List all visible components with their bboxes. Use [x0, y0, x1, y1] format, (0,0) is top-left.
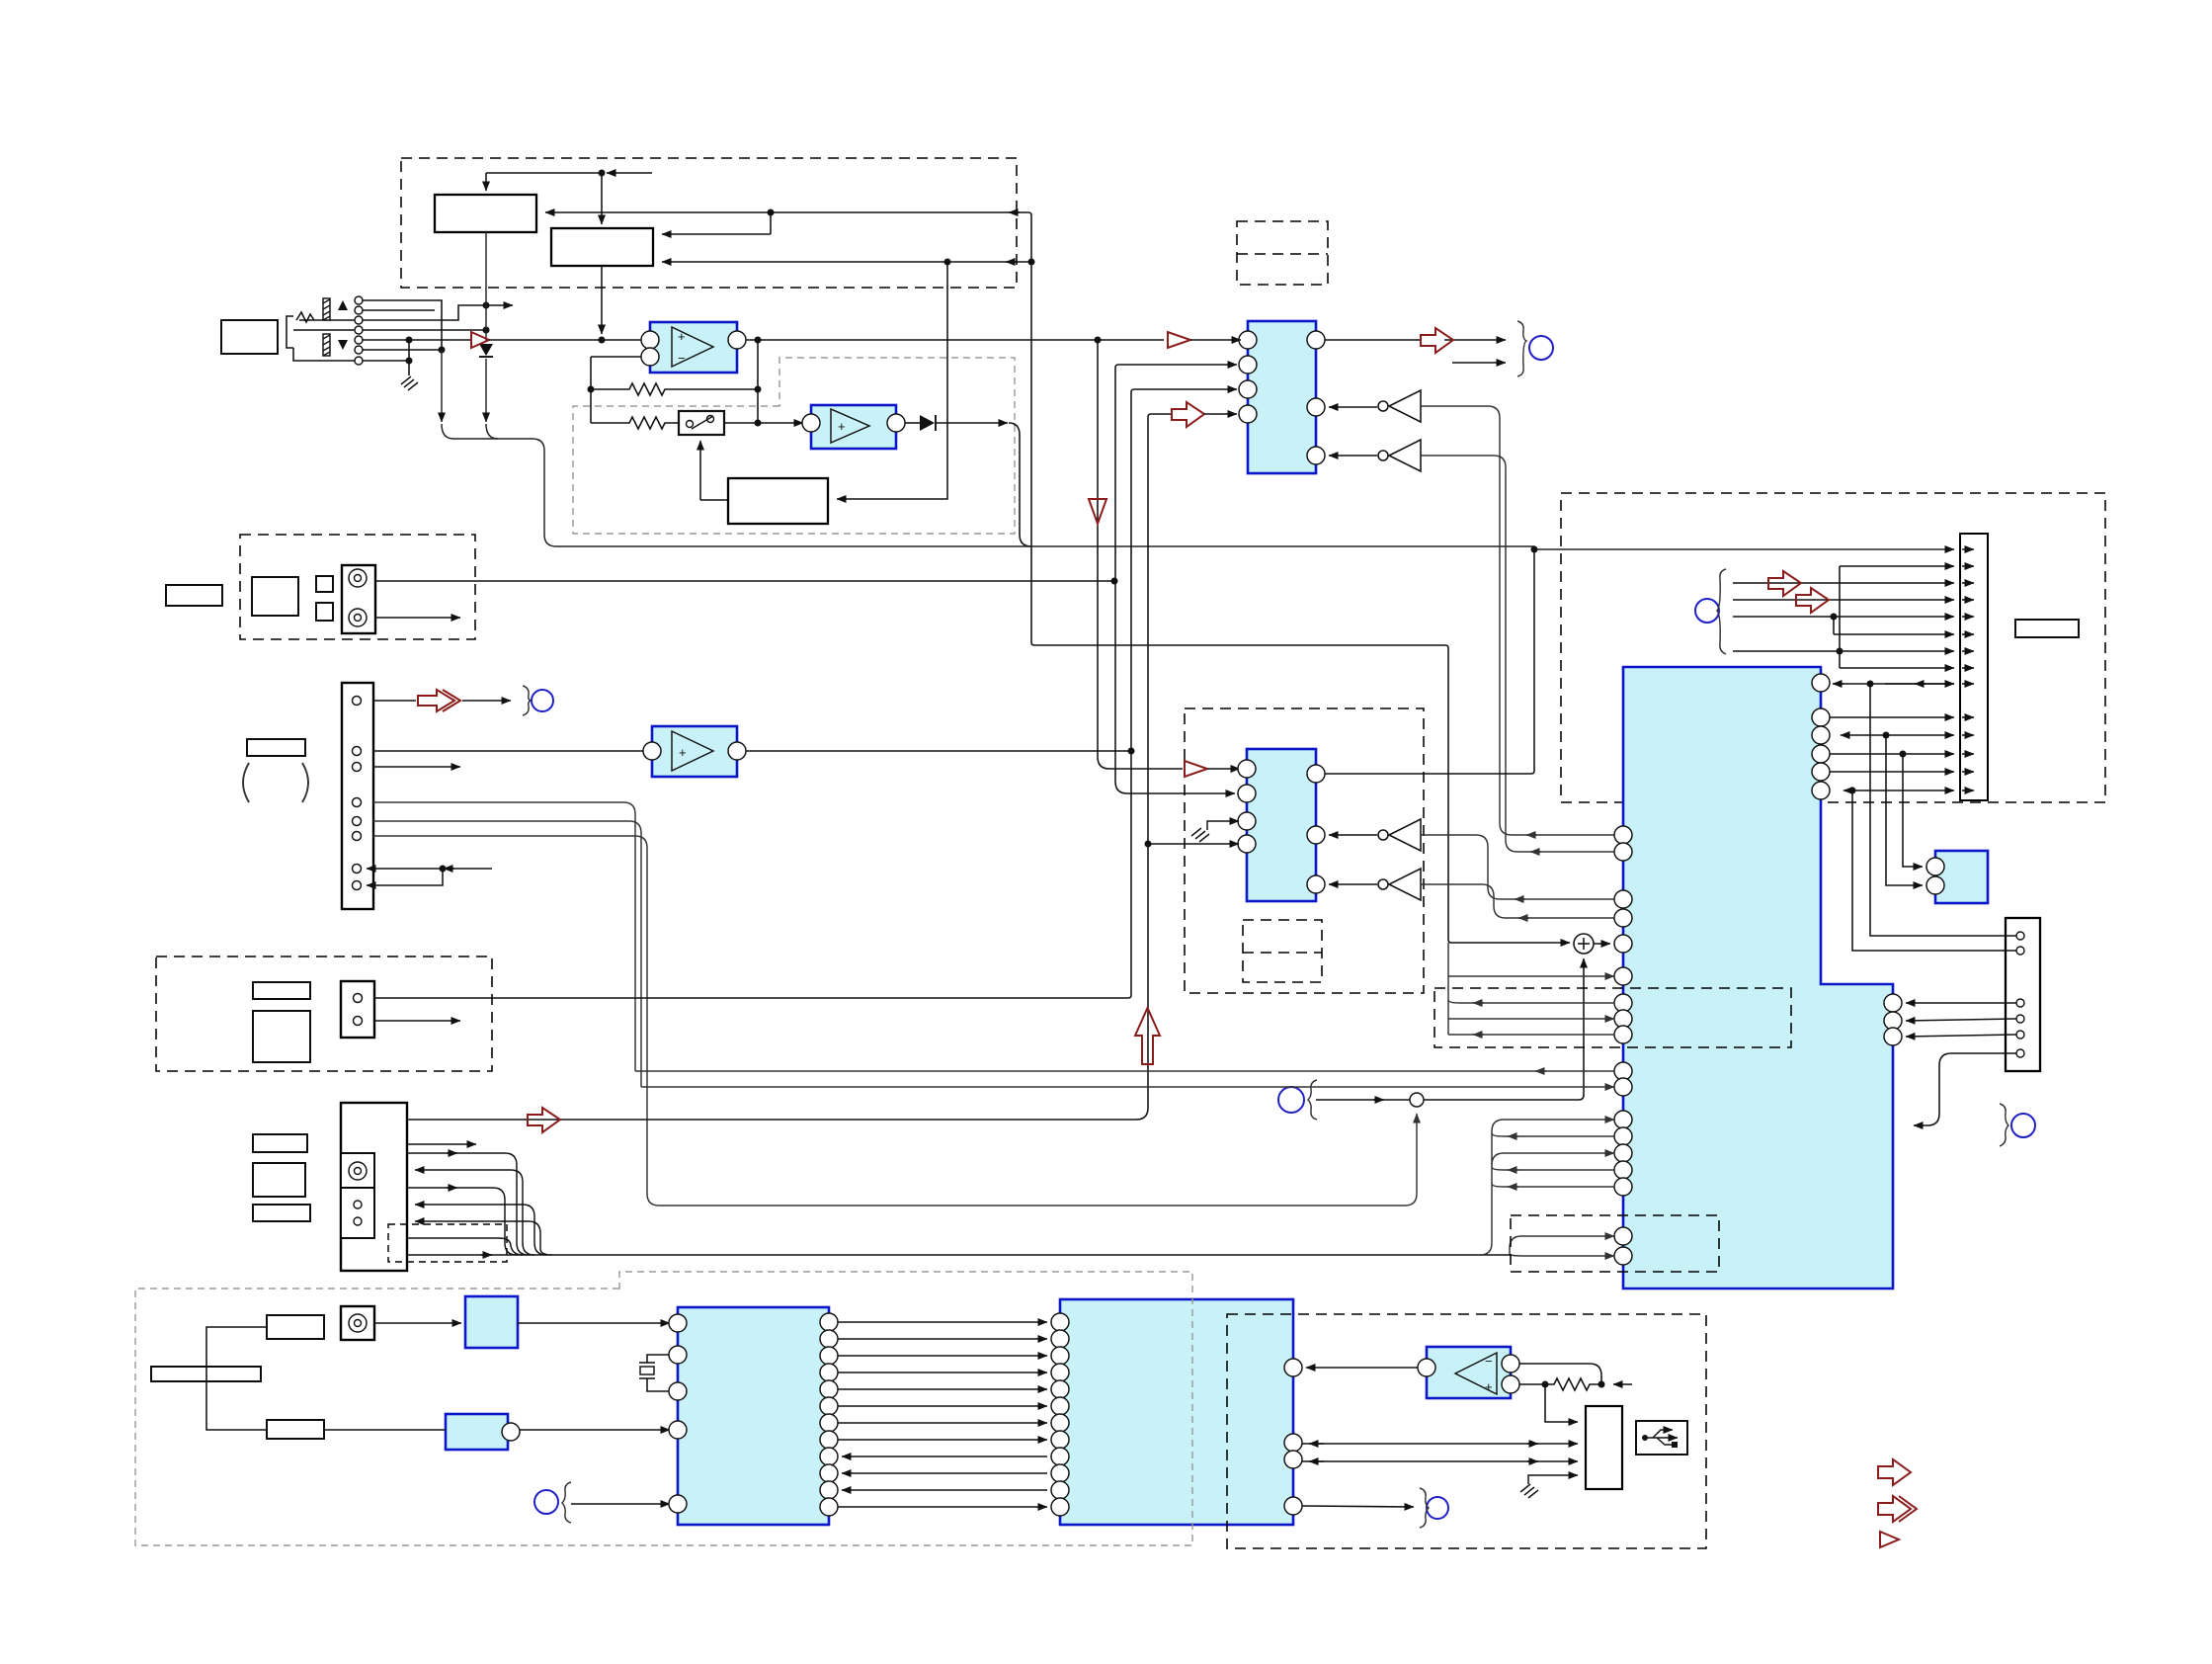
junction: y215 branch	[768, 209, 775, 216]
wire: long feedback loop vertical 1044	[1028, 212, 1570, 943]
wire: diode out to bus	[936, 423, 1031, 546]
main IC right pins	[1812, 674, 1902, 1045]
block: lower-left box 2	[253, 1011, 310, 1062]
wire: conn pin2 to opamp3	[373, 750, 643, 752]
connector circle: remote jack	[523, 686, 553, 715]
dashed block: grey bottom digital section	[135, 1272, 1192, 1545]
junction: fb nodes	[755, 386, 762, 393]
block: osc cyan small	[446, 1414, 520, 1450]
svg-text:+: +	[838, 419, 846, 434]
legend: small triangle	[1880, 1532, 1899, 1547]
wire: panel bus lines	[407, 1153, 552, 1255]
svg-text:+: +	[679, 745, 687, 760]
mid1 pins	[1239, 331, 1325, 464]
wire: strip line 556 inner	[1962, 548, 1974, 550]
wire: box2 down to audio line	[601, 266, 603, 334]
connector circle: mic in blue	[534, 1482, 571, 1523]
wire: strip line 676	[1840, 667, 1974, 669]
wire: strip group2 763	[1830, 753, 1974, 755]
connector circle: line out blue	[1420, 1488, 1448, 1528]
dashed block: right pins group B2	[1434, 988, 1791, 1047]
wire: mid1 pin4 fat arrow	[1172, 402, 1237, 427]
crystal X1	[639, 1355, 678, 1391]
block: reset cyan small	[1926, 851, 1988, 903]
IC decoder right pins	[1284, 1359, 1302, 1515]
dashed block: small two-cell placeholder top	[1237, 221, 1328, 285]
inverter: mid2 inv4	[1329, 869, 1421, 900]
connector: front panel block	[341, 1103, 407, 1271]
wire: lower conn pin1 long	[374, 389, 1134, 998]
ground: usb shield	[1520, 1475, 1578, 1498]
wire: box1 top loop	[486, 173, 652, 224]
wire: panel stub	[407, 1143, 476, 1145]
wire: strip line 642	[1834, 633, 1974, 635]
signal triangle: mid1 input	[1168, 332, 1190, 348]
wire: inv2 from main IC	[1421, 456, 1614, 852]
op-amp U3	[643, 726, 746, 777]
dashed block: top-right key section	[1561, 493, 2105, 802]
signal triangle: input buffer	[471, 332, 489, 348]
wire: strip group2 800	[1843, 790, 1974, 791]
wire: opamp4 feedback	[1519, 1364, 1632, 1422]
wire: lower resistor into switch	[591, 417, 803, 429]
block: system control box 1	[435, 195, 536, 232]
ground: jack shield	[401, 376, 418, 390]
dashed block: lower-left switch section	[156, 957, 492, 1071]
dashed block: grey mute circuit section	[573, 358, 1015, 534]
wire: jack shield to ground	[408, 340, 410, 375]
signal triangle: red down on 1111	[1089, 499, 1106, 524]
block: small square B	[316, 603, 333, 621]
connector: rear RCA jack	[341, 1306, 374, 1340]
wire: strip group2 781	[1830, 771, 1974, 773]
IC: main system controller	[1623, 667, 1893, 1289]
svg-text:+: +	[1485, 1379, 1493, 1394]
wire: sum to IC pin	[1594, 943, 1610, 945]
wire: inv1 from main IC	[1421, 406, 1614, 835]
signal arrow: remote double chevron	[418, 690, 460, 711]
block: strip label rect	[2015, 620, 2079, 637]
block: servo box 3	[728, 478, 828, 524]
block: label rect above connector	[247, 739, 305, 756]
connector circle: headphone out blue	[1517, 321, 1553, 376]
label: big parentheses	[243, 763, 308, 802]
junction: sense-line crossing	[483, 302, 490, 309]
wire: bus riser pin 1251	[1510, 1236, 1614, 1255]
wire: lower rect to osc	[324, 1429, 446, 1431]
junction: box-loop top	[599, 170, 606, 177]
dashed block: mid headphone amp section	[1185, 708, 1424, 993]
block: left source box	[221, 320, 278, 354]
node: open junction circle	[1410, 1093, 1424, 1107]
wire: jack row6	[363, 349, 442, 351]
wire: strip group2 726	[1830, 716, 1974, 718]
junction: power line tap mid2	[1145, 841, 1152, 848]
op-amp U4 line-out	[1418, 1347, 1519, 1398]
wire: inv4 from main IC	[1421, 884, 1614, 918]
wire: panel power line	[407, 414, 1172, 1120]
wire: mid2 output up to bus	[1325, 549, 1534, 774]
inverter: mid2 inv3	[1329, 819, 1421, 851]
dashed block: small two-cell placeholder mid	[1243, 920, 1322, 982]
block: line-in filter cyan	[465, 1296, 518, 1348]
signal arrow: red fat up arrow	[1135, 1008, 1160, 1064]
connector circle: key common blue	[1695, 569, 1726, 654]
wire: strip group2 744	[1841, 734, 1974, 736]
signal arrow: power fat arrow	[528, 1108, 560, 1132]
wire: mid1 pin2 from vertical	[1115, 365, 1237, 793]
IC dsp right pins	[820, 1313, 838, 1516]
wire: jack row1	[363, 300, 442, 350]
block: battery long rect	[151, 1367, 261, 1381]
connector circle: mic blue left	[1278, 1080, 1317, 1120]
connector: headphone jack assembly	[287, 312, 355, 361]
wire: mic to dsp	[571, 1503, 670, 1505]
junction: jack line meets vertical	[1111, 578, 1118, 585]
wire: conn pins grey bundle	[373, 802, 1417, 1206]
wire: aux pin2	[1852, 790, 2016, 951]
connector: main board connector tall	[342, 683, 373, 909]
ground: mid2 pin3	[1191, 821, 1239, 842]
diode: mute diode on 492	[479, 344, 493, 356]
wire: jack row4	[363, 329, 486, 331]
jack hatched bar lower	[323, 334, 330, 356]
connector: aux 6pin right	[2006, 918, 2040, 1071]
wire: mid1 pin3	[1134, 388, 1237, 390]
jack contact circles	[355, 296, 363, 365]
junction: mid2 out bus	[1531, 546, 1538, 553]
jack detect triangle down	[338, 340, 348, 350]
svg-text:−: −	[1485, 1354, 1493, 1369]
jack hatched bar upper	[323, 298, 330, 320]
svg-text:+: +	[678, 329, 686, 344]
block: lower-left label rect 1	[253, 982, 310, 999]
wire: switch control from box3	[700, 441, 728, 500]
wire: main digital bus	[407, 1254, 1510, 1256]
wire: conn pin1 to remote out	[373, 700, 511, 702]
sum node: mixer plus	[1574, 934, 1594, 954]
junction: audio split to hp	[1095, 337, 1102, 344]
wire: strip line 573	[1840, 566, 1974, 668]
block: small square A	[316, 576, 333, 592]
wire: inv3 from main IC	[1421, 835, 1614, 899]
wire: bus risers pins 1133-1201	[1480, 1120, 1614, 1255]
legend: fat arrow double	[1878, 1496, 1917, 1522]
svg-text:−: −	[678, 351, 686, 366]
symbol: usb logo box	[1636, 1421, 1687, 1455]
wire: into mid2 pin1	[1207, 768, 1240, 770]
jack detect triangle up	[338, 300, 348, 310]
wire: osc to dsp	[520, 1429, 670, 1431]
mid2 pins	[1238, 760, 1325, 893]
wire: reset feeds	[1886, 735, 1923, 885]
connector: key matrix strip	[1960, 534, 1988, 800]
block: small rect lower	[267, 1420, 324, 1439]
IC: headphone driver mid2	[1247, 749, 1316, 901]
wire: strip line 659	[1733, 650, 1974, 652]
IC: headphone driver mid1	[1248, 321, 1316, 473]
IC: DSP main block bottom-left	[678, 1307, 829, 1525]
IC: decoder block bottom-right	[1060, 1299, 1293, 1525]
wire: lower conn pin2 stub	[374, 1020, 460, 1022]
wire: opamp1 output main audio	[746, 339, 1164, 341]
IC decoder left pins	[1051, 1313, 1069, 1516]
IC dsp left pins	[669, 1314, 687, 1513]
wire: strip line 692 from IC	[1833, 683, 1974, 685]
wire: jack row2	[363, 309, 435, 311]
wire: mid2 pin4	[1148, 843, 1239, 845]
op-amp U1	[641, 322, 746, 373]
wire: dsp-decoder data bus	[838, 1322, 1047, 1507]
wire: grey bundle A pins 988-1047	[1448, 943, 1614, 1035]
block: system control box 2	[551, 228, 653, 266]
wire: box1 feedback line y215	[545, 212, 1028, 234]
diode: detector diode	[920, 415, 935, 431]
wire: filter to dsp pin1	[518, 1322, 670, 1324]
connector: dual RCA jack block	[342, 565, 375, 633]
op-amp U2	[802, 405, 905, 449]
wire: jack row7	[363, 360, 409, 362]
wire: usb data lines	[1302, 1444, 1578, 1461]
wire: opamp3 output	[746, 750, 1131, 752]
block: left label rect mid	[166, 585, 222, 606]
signal triangle: mid2 input	[1185, 761, 1207, 777]
wire: rca to filter	[374, 1322, 461, 1324]
signal arrow: mid1 out fat	[1421, 328, 1453, 353]
block: front label rects	[253, 1134, 307, 1152]
wire: mid1 output to hp connector	[1325, 340, 1506, 363]
wire: audio into opamp1	[489, 339, 646, 341]
junction: pin7 branch	[440, 866, 447, 873]
wire: conn pin3 stub	[373, 766, 460, 768]
block: sensor box in dashed section	[252, 577, 298, 616]
wire: vertical to servo box3	[837, 262, 947, 499]
inverter: mid1 inv2	[1329, 440, 1421, 471]
wire: pins 1084 1100 long	[635, 1071, 1614, 1087]
junction: y265 branch	[944, 259, 951, 266]
wire: opamp2 out to diode	[905, 422, 920, 424]
wire: feedback resistor upper	[591, 340, 758, 423]
block: small rect upper	[267, 1315, 324, 1339]
dashed block: top-left control section	[401, 158, 1017, 288]
wire: jack B stub arrow	[375, 617, 460, 619]
wire: aux pin1	[1870, 684, 2016, 936]
wire: aux pin6 to blue conn	[1914, 1053, 2016, 1125]
legend: fat arrow single	[1878, 1459, 1911, 1485]
wire: main lower bus	[556, 546, 1954, 549]
connector: lower-left 2pin	[341, 981, 374, 1038]
dashed block: bottom-right usb section	[1227, 1314, 1706, 1548]
wire: into mid1 pin1	[1190, 339, 1241, 341]
wire: battery link	[206, 1327, 267, 1430]
wire: jack A long line right	[375, 580, 1114, 582]
main IC left pins	[1614, 826, 1632, 1265]
connector: usb port	[1586, 1406, 1622, 1489]
wire: bus to pin 1271	[1510, 1255, 1614, 1256]
junction: opamp3 out tap	[1128, 748, 1135, 755]
wire: box2 feedback line y265	[662, 261, 1031, 263]
wire: conn pin7 pin8 control	[367, 869, 492, 885]
dashed block: left input jack section	[240, 535, 475, 639]
junction: opamp1 out	[755, 337, 762, 344]
wire: decoder to line out	[1302, 1506, 1414, 1507]
inverter: mid1 inv1	[1329, 390, 1421, 422]
wire: mute line from box1 down	[486, 232, 498, 439]
dashed block: right pins group B3	[1511, 1215, 1719, 1272]
wire: strip line 607 with fat arrow	[1733, 599, 1974, 601]
wire: jack row5 audio	[363, 339, 471, 341]
dashed block: small key group	[388, 1224, 507, 1262]
wire: strip line 590 with fat arrow	[1733, 582, 1974, 584]
wire: aux pin5	[1906, 1035, 2016, 1037]
switch: mute switch	[679, 411, 724, 435]
wire: strip line 624	[1733, 617, 1974, 634]
wire: aux pin4	[1906, 1019, 2016, 1021]
wire: hp line vertical 1111	[1098, 340, 1183, 769]
wire: jack row3 sense	[363, 305, 513, 320]
wire: opamp4 to decoder	[1306, 1367, 1418, 1369]
wire: aux pin3	[1906, 1002, 2016, 1004]
wire: mute line from jack row1/6 down	[442, 350, 556, 546]
wire: mic line to sum	[1316, 958, 1584, 1100]
connector circle: right blue	[2000, 1104, 2035, 1146]
